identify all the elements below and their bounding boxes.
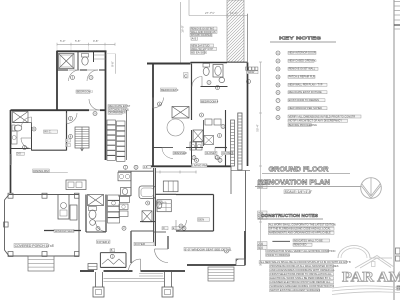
construction notes rule bbox=[258, 218, 323, 220]
key notes rule bbox=[270, 41, 336, 43]
keynote stairs bbox=[69, 135, 73, 139]
toilet U1 bbox=[203, 64, 210, 68]
bath3 door arc bbox=[192, 77, 202, 87]
svg-text:EXIST DOOR TO REMAIN: EXIST DOOR TO REMAIN bbox=[289, 98, 320, 102]
svg-text:NOTIFY ARCHITECT OF ANY DISCRE: NOTIFY ARCHITECT OF ANY DISCREPANCY bbox=[289, 119, 343, 123]
hall door arc bbox=[22, 117, 32, 127]
svg-text:3-0: 3-0 bbox=[17, 152, 21, 156]
logo roof bbox=[355, 256, 394, 269]
foyer walls bbox=[130, 231, 132, 263]
svg-text:ALL NEW WALLS SHALL BE 2x4 WOO: ALL NEW WALLS SHALL BE 2x4 WOOD STUDS AT… bbox=[260, 260, 351, 264]
key note 9 bbox=[276, 116, 280, 120]
note block A bbox=[190, 27, 217, 30]
round table bbox=[167, 119, 184, 136]
porch outline bbox=[5, 195, 80, 257]
svg-text:DISHWASHER: DISHWASHER bbox=[109, 111, 126, 115]
side door bbox=[88, 264, 97, 270]
porch label bbox=[14, 244, 48, 248]
porch treads bbox=[139, 273, 163, 275]
toilet W2 bbox=[14, 125, 22, 131]
svg-text:BEDROOM 3: BEDROOM 3 bbox=[161, 88, 179, 92]
central bold wall bbox=[153, 168, 155, 246]
notes paragraph 2 bbox=[266, 249, 329, 252]
bath door arc 2 bbox=[87, 70, 98, 81]
svg-text:LICENSED ELECTRICIAN PATCH AN: LICENSED ELECTRICIAN PATCH AND REPAIR AL… bbox=[270, 280, 331, 284]
closet xbox hall bbox=[142, 211, 152, 222]
bath divider wall vert bbox=[77, 51, 79, 70]
keynotes mid low bbox=[195, 158, 199, 162]
note block B bbox=[191, 44, 214, 47]
kitchen note text bbox=[108, 105, 127, 108]
title block marks right edge bbox=[396, 248, 400, 254]
front door arc bbox=[129, 259, 141, 271]
right exterior wall bbox=[247, 14, 249, 63]
den top wall ext bbox=[155, 193, 176, 195]
svg-text:5'-8": 5'-8" bbox=[75, 39, 80, 43]
svg-text:FOYER 2: FOYER 2 bbox=[97, 240, 110, 244]
pantry xbox bbox=[88, 195, 104, 206]
dim line top bbox=[189, 15, 248, 17]
title scale bbox=[284, 190, 310, 194]
svg-text:GROUND FLOOR: GROUND FLOOR bbox=[269, 167, 329, 174]
closet box2 bbox=[204, 136, 214, 145]
svg-text:OF THE FLORIDA BUILDING CODE A: OF THE FLORIDA BUILDING CODE AND ALL LOC… bbox=[269, 227, 331, 231]
svg-text:B: B bbox=[66, 143, 68, 147]
dim extension line top left vertical bbox=[188, 0, 190, 16]
keynote bedroom door bbox=[93, 112, 97, 116]
svg-text:FINISH SELECTIONS PRIOR TO INS: FINISH SELECTIONS PRIOR TO INSTALLATION … bbox=[270, 272, 332, 276]
svg-text:D: D bbox=[163, 226, 165, 230]
living room label bbox=[192, 164, 208, 167]
bedroom door arc bbox=[89, 99, 100, 110]
svg-text:SURFACES DAMAGED DURING CONSTR: SURFACES DAMAGED DURING CONSTRUCTION TO bbox=[270, 284, 333, 288]
svg-text:ELECTRICAL WORK SHALL BE PERFO: ELECTRICAL WORK SHALL BE PERFORMED BY A bbox=[270, 276, 331, 280]
title rule 1 bbox=[262, 173, 350, 175]
kitchen counter top bbox=[66, 180, 86, 190]
stairs bbox=[75, 127, 89, 148]
dim line suite top bbox=[57, 43, 115, 45]
front wall bbox=[80, 270, 94, 272]
svg-text:50'-4": 50'-4" bbox=[255, 124, 259, 131]
den door arc2 bbox=[157, 202, 166, 211]
svg-text:DINING RM: DINING RM bbox=[33, 169, 49, 173]
hall wall left bbox=[66, 110, 68, 151]
svg-text:WALL AND DOOR AS: WALL AND DOOR AS bbox=[191, 30, 216, 34]
window mullion band bbox=[238, 113, 242, 170]
kitchen cabinets col2 bbox=[117, 121, 126, 126]
door tag seat bbox=[110, 249, 115, 252]
window tag row bbox=[246, 67, 249, 70]
tagbox hall bbox=[65, 139, 70, 142]
svg-text:NEW WALL PER PLAN - TYP: NEW WALL PER PLAN - TYP bbox=[289, 83, 323, 87]
bath2 bottom wall bbox=[11, 148, 31, 150]
tag boxes foyer bbox=[162, 227, 168, 230]
svg-text:NEW WINDOW PER SCHED: NEW WINDOW PER SCHED bbox=[289, 106, 323, 110]
bedroom1 label bbox=[76, 90, 90, 93]
room left wall bbox=[152, 64, 154, 167]
svg-text:CLOSET: CLOSET bbox=[222, 151, 233, 155]
kitchen counter2 bbox=[70, 205, 77, 220]
porch slab edge bbox=[104, 278, 165, 280]
notes legend text bbox=[293, 239, 330, 242]
svg-text:LIVING RM: LIVING RM bbox=[192, 164, 207, 168]
big tub bbox=[139, 186, 156, 199]
keynotes y157 bbox=[192, 156, 196, 160]
svg-text:NEW 2x4 STUD: NEW 2x4 STUD bbox=[191, 43, 210, 47]
family room walls bbox=[244, 231, 246, 265]
svg-text:MATCH EXISTING ADJACENT SURFAC: MATCH EXISTING ADJACENT SURFACES bbox=[270, 288, 320, 292]
bath divider U bbox=[201, 86, 228, 88]
keynotes center bbox=[200, 113, 204, 117]
svg-text:BEFORE PROCEEDING: BEFORE PROCEEDING bbox=[289, 123, 317, 127]
bath door arc 1 bbox=[69, 70, 80, 81]
left wing outer wall bbox=[10, 110, 12, 194]
bath left extras bbox=[119, 204, 128, 210]
label c2 bbox=[97, 240, 111, 243]
bath left wall bbox=[130, 171, 132, 196]
vanity hall bbox=[118, 172, 131, 181]
logo swoosh bbox=[332, 286, 400, 295]
notes long line bbox=[259, 261, 347, 264]
hall door arc bbox=[67, 113, 78, 124]
notes paragraph 3 bbox=[270, 265, 334, 268]
svg-text:PAR AM: PAR AM bbox=[342, 270, 400, 286]
living room wall bbox=[147, 165, 231, 167]
bath2 door arc bbox=[21, 138, 32, 149]
keynote foyer bbox=[122, 226, 126, 230]
porch column right bbox=[164, 272, 166, 287]
toilet C1 bbox=[89, 207, 97, 211]
foyer door arc bbox=[155, 249, 169, 263]
svg-text:REMOVE EXIST WALL: REMOVE EXIST WALL bbox=[289, 67, 316, 71]
linen shelves bbox=[94, 54, 106, 56]
svg-text:REMOVED: REMOVED bbox=[294, 243, 307, 247]
mid wall bbox=[44, 230, 81, 232]
thin line left of living wall bbox=[118, 170, 154, 172]
svg-text:CONTRACTOR SHALL VERIFY ALL EX: CONTRACTOR SHALL VERIFY ALL EXISTING CON… bbox=[266, 249, 335, 253]
svg-text:B: B bbox=[111, 248, 113, 252]
sheet border right bbox=[393, 0, 395, 300]
arc room2 bbox=[215, 148, 226, 159]
family steps bbox=[208, 267, 234, 281]
window seat label bbox=[54, 229, 74, 232]
vertical dim line left bbox=[180, 2, 182, 63]
notes legend dash bbox=[272, 240, 290, 242]
kitchen island bbox=[58, 195, 69, 220]
svg-text:DEN: DEN bbox=[198, 218, 204, 222]
svg-text:RELOCATE EXIST: RELOCATE EXIST bbox=[109, 104, 131, 108]
porch column left bbox=[95, 272, 97, 287]
music room walls bbox=[100, 252, 126, 254]
arc room1 bbox=[162, 148, 173, 159]
svg-text:W.I.C.: W.I.C. bbox=[44, 130, 52, 134]
den door arc bbox=[176, 220, 187, 231]
svg-text:SCALE: 1/4"=1'-0": SCALE: 1/4"=1'-0" bbox=[285, 190, 313, 194]
tag box pair bbox=[16, 152, 24, 155]
notes paragraph 1 bbox=[268, 223, 334, 226]
svg-text:A-5: A-5 bbox=[192, 37, 197, 41]
wall x225 bbox=[225, 110, 227, 166]
keynote tub bbox=[146, 201, 150, 205]
svg-text:WINDOW SEAT: WINDOW SEAT bbox=[55, 229, 75, 233]
closet label bbox=[44, 130, 58, 133]
bedroom divider wall y147 bbox=[154, 147, 174, 149]
closet xbox U bbox=[172, 107, 189, 119]
logo dome bbox=[338, 246, 392, 259]
den walls bbox=[176, 194, 214, 196]
bedroom divider bbox=[191, 64, 193, 121]
svg-text:CONSTRUCTION NOTES: CONSTRUCTION NOTES bbox=[261, 213, 319, 219]
svg-text:27'-7½": 27'-7½" bbox=[205, 11, 215, 15]
closet xbox bbox=[13, 112, 29, 123]
right dim line bbox=[260, 62, 262, 265]
header line y172 bbox=[156, 171, 197, 173]
svg-text:PROVIDE BLOCKING AT ALL WALL M: PROVIDE BLOCKING AT ALL WALL MOUNTED FIX… bbox=[270, 264, 339, 268]
keynote seat bbox=[110, 254, 114, 258]
svg-text:DRESSER: DRESSER bbox=[174, 151, 187, 155]
toilet hall bbox=[157, 202, 162, 209]
svg-text:VERIFY ALL DIMENSIONS IN FIELD: VERIFY ALL DIMENSIONS IN FIELD PRIOR TO … bbox=[289, 114, 356, 118]
svg-text:AND ACCESSORIES COORDINATE WI: AND ACCESSORIES COORDINATE WITH OWNER AL… bbox=[270, 268, 335, 272]
toilet W1 bbox=[82, 54, 89, 58]
powder walls bbox=[85, 195, 87, 233]
br3 door arc bbox=[153, 98, 164, 109]
great wall top bbox=[147, 62, 191, 64]
svg-text:A: A bbox=[66, 138, 68, 142]
bedroom3 label bbox=[161, 88, 177, 91]
wall under closet bbox=[140, 221, 155, 223]
hall closet divider bbox=[31, 123, 33, 151]
foyer label bbox=[134, 242, 154, 246]
vanity left bbox=[12, 131, 18, 144]
window tags right bbox=[258, 181, 268, 185]
suite bottom wall bbox=[57, 109, 89, 111]
door tag br3 bbox=[184, 73, 189, 79]
svg-text:BD EA SIDE: BD EA SIDE bbox=[191, 51, 207, 55]
north arrow bbox=[361, 178, 382, 199]
powder door arc bbox=[96, 221, 107, 232]
svg-text:ALL WORK SHALL CONFORM TO THE: ALL WORK SHALL CONFORM TO THE LATEST EDI… bbox=[269, 223, 336, 227]
tub U1 bbox=[213, 65, 223, 78]
title rule 2 bbox=[255, 186, 361, 188]
sink U1 bbox=[219, 77, 225, 82]
dressers bbox=[205, 119, 212, 125]
svg-text:CLOSET: CLOSET bbox=[206, 151, 217, 155]
svg-text:9'-6": 9'-6" bbox=[111, 61, 115, 66]
svg-text:REMOVE EXISTING: REMOVE EXISTING bbox=[191, 26, 215, 30]
svg-text:NEW CASED OPENING: NEW CASED OPENING bbox=[289, 59, 317, 63]
bedroom4 label bbox=[201, 100, 218, 103]
revision table ticks top right bbox=[394, 1, 400, 3]
svg-text:BEDROOM 4: BEDROOM 4 bbox=[201, 99, 219, 103]
closet right of wall bbox=[157, 200, 171, 212]
svg-text:WDW: WDW bbox=[248, 70, 255, 74]
suite dim right bbox=[115, 54, 117, 74]
kitchen cabinets col1 bbox=[107, 120, 116, 125]
key notes items bbox=[276, 51, 280, 55]
bath divider wall horiz bbox=[57, 69, 68, 71]
svg-text:6'-0" WINDOW SEAT SEE DETAIL: 6'-0" WINDOW SEAT SEE DETAIL bbox=[185, 247, 232, 251]
left wing top wall bbox=[11, 109, 58, 111]
wall segment y171 bbox=[231, 170, 250, 172]
washer dryer bbox=[190, 142, 196, 150]
porch steps bbox=[28, 256, 54, 271]
suite left wall bbox=[56, 51, 58, 111]
kitchen wall right bbox=[126, 110, 128, 160]
wall x203 bbox=[203, 120, 205, 146]
svg-text:RELOCATE EXIST FIXTURE: RELOCATE EXIST FIXTURE bbox=[289, 90, 322, 94]
svg-text:KEY NOTES: KEY NOTES bbox=[279, 35, 322, 41]
porch posts bbox=[8, 193, 13, 198]
den label bbox=[198, 218, 210, 221]
hall tags bbox=[124, 165, 128, 169]
svg-text:5'-0": 5'-0" bbox=[60, 39, 65, 43]
furniture labels mid bbox=[173, 152, 185, 155]
window symbol left wall bbox=[10, 155, 12, 165]
window seat long label bbox=[184, 247, 230, 251]
bath3 keynotes bbox=[207, 81, 211, 85]
hatched existing structure region bbox=[165, 0, 308, 62]
svg-text:BEDROOM 2: BEDROOM 2 bbox=[77, 90, 94, 94]
svg-text:NEW INTERIOR DOOR: NEW INTERIOR DOOR bbox=[289, 51, 316, 55]
sink C1 bbox=[90, 220, 96, 226]
bath left fixtures bbox=[121, 188, 132, 196]
svg-text:16'-0": 16'-0" bbox=[181, 25, 185, 32]
svg-text:INDICATES WALL TO BE: INDICATES WALL TO BE bbox=[294, 238, 323, 242]
suite top wall bbox=[57, 50, 107, 52]
svg-text:AMENDMENTS AND ORDINANCES AS A: AMENDMENTS AND ORDINANCES AS APPLICABLE bbox=[269, 231, 331, 235]
svg-text:E: E bbox=[173, 226, 175, 230]
window seat zigzag bbox=[102, 259, 125, 264]
wall y232 stub bbox=[154, 231, 166, 233]
svg-text:PRIOR TO BIDDING: PRIOR TO BIDDING bbox=[266, 253, 290, 257]
svg-text:COVERED PORCH 14'x8': COVERED PORCH 14'x8' bbox=[15, 244, 55, 248]
dim extension line right of hatch bbox=[247, 14, 249, 63]
hall wall y171 bbox=[118, 170, 154, 172]
dining label bbox=[33, 169, 50, 172]
closet xbox U2 bbox=[193, 130, 203, 142]
svg-text:RENOVATION PLAN: RENOVATION PLAN bbox=[258, 180, 330, 187]
shower stall bbox=[59, 54, 75, 69]
appliance cabinets bbox=[108, 195, 120, 200]
corner column bbox=[236, 259, 245, 266]
wing interior wall bbox=[32, 149, 67, 151]
window mullion band2 bbox=[231, 120, 235, 166]
svg-text:2-8: 2-8 bbox=[144, 165, 148, 169]
hall cabinets bbox=[163, 181, 178, 192]
suite right wall bbox=[105, 51, 107, 160]
svg-text:FOYER: FOYER bbox=[135, 242, 146, 246]
svg-text:9'-8": 9'-8" bbox=[93, 39, 98, 43]
svg-text:PATCH & REPAIR FLR: PATCH & REPAIR FLR bbox=[289, 75, 315, 79]
